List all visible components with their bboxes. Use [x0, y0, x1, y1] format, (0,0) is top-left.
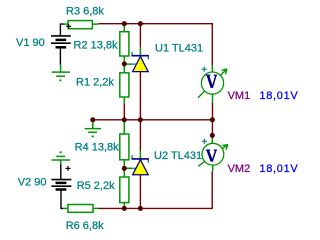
svg-text:U1 TL431: U1 TL431 [155, 43, 203, 55]
resistor R1 [120, 64, 129, 104]
svg-text:VM1: VM1 [228, 90, 251, 102]
svg-text:R2 13,8k: R2 13,8k [74, 40, 119, 52]
svg-text:R3 6,8k: R3 6,8k [66, 6, 104, 18]
svg-text:18,01V: 18,01V [259, 163, 298, 175]
wire ground to battery V2 [60, 164, 62, 179]
ground above V2 (flipped) [60, 151, 62, 153]
resistor R6 [63, 205, 98, 213]
node ground terminal [90, 117, 95, 122]
node U1 ref [122, 61, 127, 66]
wire U1 cathode from top rail [139, 24, 141, 47]
resistor R2 [120, 24, 129, 64]
ground below V1 [52, 65, 70, 77]
battery V2 plus sign [66, 166, 71, 171]
shunt regulator U2 TL431 [132, 155, 149, 175]
wire U2 cathode from mid rail [139, 120, 141, 151]
battery V2 [51, 180, 71, 190]
resistor R3 [64, 21, 99, 29]
svg-text:R5 2,2k: R5 2,2k [77, 180, 115, 192]
junction mid rail at R column [122, 117, 127, 122]
resistor R5 [120, 168, 129, 208]
wire top rail [99, 24, 213, 65]
wire U1 ref from node [124, 63, 132, 65]
svg-text:R6 6,8k: R6 6,8k [66, 220, 104, 232]
svg-text:R1 2,2k: R1 2,2k [76, 76, 114, 88]
voltmeter VM2 [198, 135, 228, 171]
junction top rail at U1 [138, 21, 143, 26]
wire battery V2 bottom to R6 [61, 191, 64, 209]
wire U2 ref from node [124, 167, 132, 169]
svg-text:VM2: VM2 [228, 163, 251, 175]
svg-text:U2 TL431: U2 TL431 [154, 150, 202, 162]
wire VM2 top from mid rail [211, 120, 213, 136]
voltmeter VM1 [198, 65, 227, 120]
svg-text:V2 90: V2 90 [18, 176, 47, 188]
node VM2 top terminal [210, 133, 215, 138]
wire bottom rail [98, 172, 212, 209]
wire U2 anode to bottom rail [139, 175, 141, 209]
battery V1 [51, 36, 71, 65]
junction mid rail at U column [138, 117, 143, 122]
shunt regulator U1 TL431 [132, 52, 149, 72]
battery V1 plus sign [66, 24, 71, 28]
resistor R4 [120, 120, 129, 169]
wire battery V1 top to R3 [60, 24, 64, 36]
wire R1 bottom to mid rail [123, 104, 125, 120]
junction bottom rail at R5 [122, 206, 127, 211]
ground mid rail [85, 120, 102, 133]
svg-text:V1 90: V1 90 [16, 37, 45, 49]
wire mid rail [93, 119, 213, 121]
svg-text:R4 13,8k: R4 13,8k [75, 141, 120, 153]
node U2 ref [122, 166, 127, 171]
junction top rail at R2 [122, 21, 127, 26]
wire U1 anode to mid rail [139, 72, 141, 120]
svg-text:18,01V: 18,01V [259, 90, 298, 102]
junction mid rail at VM column [210, 117, 215, 122]
junction bottom rail at U2 [138, 206, 143, 211]
